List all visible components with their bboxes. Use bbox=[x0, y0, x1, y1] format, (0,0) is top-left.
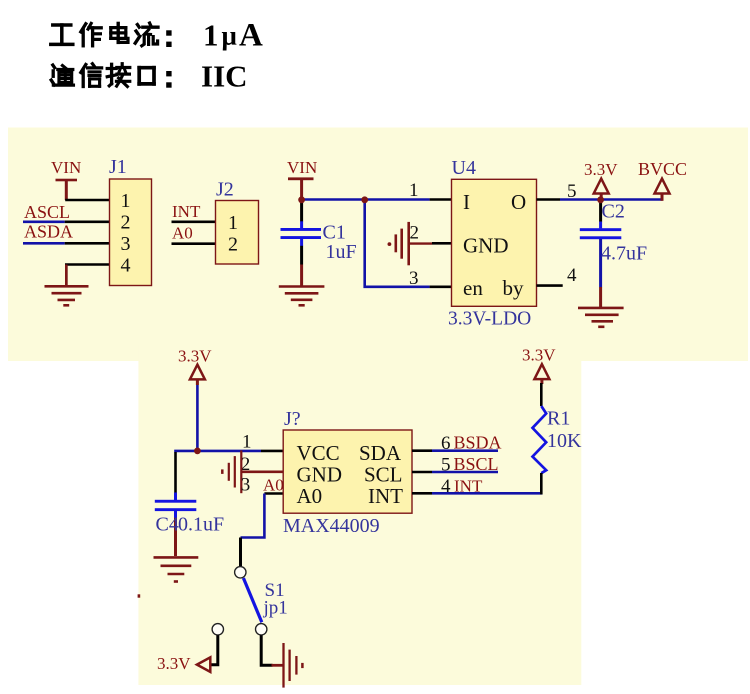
svg-text:MAX44009: MAX44009 bbox=[283, 515, 380, 537]
svg-text:C2: C2 bbox=[602, 201, 625, 223]
svg-text:3: 3 bbox=[241, 474, 251, 495]
wire J2 pin2 bbox=[172, 242, 216, 245]
wire U4 pin5 to 3.3V/BVCC bbox=[537, 198, 561, 201]
connector J2 bbox=[216, 179, 259, 265]
svg-text:GND: GND bbox=[297, 462, 343, 486]
svg-text:A0: A0 bbox=[172, 224, 193, 243]
wire J2 pin1 bbox=[172, 221, 216, 224]
svg-text:10K: 10K bbox=[547, 430, 582, 452]
power port 3.3V (R1) bbox=[522, 346, 556, 385]
svg-text:U4: U4 bbox=[452, 157, 476, 179]
wire J1 pin3 bbox=[65, 242, 110, 245]
svg-text:1uF: 1uF bbox=[326, 241, 357, 263]
capacitor C4 bbox=[155, 493, 224, 557]
svg-text:INT: INT bbox=[172, 202, 201, 221]
signal ground at MAX44009 pin2 bbox=[222, 450, 283, 493]
power port VIN (C1) bbox=[287, 158, 317, 200]
svg-text:A: A bbox=[239, 18, 263, 54]
wire J1 pin1 bbox=[65, 199, 109, 202]
wire J1 pin2 bbox=[65, 221, 110, 224]
svg-text:3.3V: 3.3V bbox=[522, 346, 556, 365]
svg-text:J2: J2 bbox=[216, 179, 234, 201]
svg-text:1: 1 bbox=[203, 18, 219, 53]
connector J1 bbox=[109, 156, 152, 286]
wire S1 other throw to 3.3V bbox=[210, 635, 218, 664]
junction node at U4 input net bbox=[361, 196, 368, 203]
svg-text:ASDA: ASDA bbox=[24, 222, 73, 242]
wire ASCL bbox=[23, 221, 65, 224]
svg-text:0.1uF: 0.1uF bbox=[178, 514, 224, 536]
signal ground at S1 bbox=[272, 643, 303, 688]
svg-text:1: 1 bbox=[242, 432, 252, 453]
svg-text:en: en bbox=[463, 276, 483, 300]
svg-text:VIN: VIN bbox=[51, 158, 81, 177]
heading line 1: 工作电流： 1uA bbox=[51, 25, 73, 44]
capacitor C2 bbox=[580, 200, 647, 308]
svg-text:3: 3 bbox=[121, 233, 131, 255]
sheet background top bbox=[8, 128, 748, 362]
regulator U4 bbox=[448, 157, 537, 330]
wire 3.3V to R1 bbox=[540, 383, 543, 406]
svg-text:R1: R1 bbox=[547, 408, 570, 430]
junction node VCC net bbox=[194, 448, 201, 455]
svg-text:J?: J? bbox=[284, 408, 301, 430]
wire node to C4 bbox=[174, 450, 197, 453]
wire J1 pin4 bbox=[66, 265, 109, 286]
svg-text:O: O bbox=[511, 190, 526, 214]
svg-text:1: 1 bbox=[228, 212, 238, 234]
power port 3.3V (C2) bbox=[584, 160, 618, 200]
svg-text:2: 2 bbox=[410, 223, 420, 244]
svg-text:ASCL: ASCL bbox=[24, 202, 70, 222]
wire R1 bottom bbox=[540, 473, 543, 494]
svg-text:jp1: jp1 bbox=[263, 598, 288, 619]
svg-text:μ: μ bbox=[222, 21, 237, 51]
svg-text:SCL: SCL bbox=[364, 462, 403, 486]
junction node at C1 bbox=[298, 196, 305, 203]
ground below C2 bbox=[578, 308, 624, 327]
svg-text:I: I bbox=[463, 190, 470, 214]
wire S1 common to ground bbox=[261, 635, 272, 665]
svg-text:J1: J1 bbox=[109, 156, 127, 178]
wire SCL bbox=[412, 471, 432, 474]
ground below C4 bbox=[154, 557, 199, 581]
svg-text:4.7uF: 4.7uF bbox=[601, 243, 647, 265]
signal ground at U4 pin2 bbox=[388, 222, 452, 265]
sensor U? MAX44009 bbox=[283, 408, 412, 537]
switch S1 bbox=[212, 567, 288, 635]
wire ASDA bbox=[23, 242, 65, 245]
wire node to U4 pin3 (en) bbox=[365, 200, 430, 287]
ground below J1 bbox=[45, 286, 89, 305]
svg-text:VIN: VIN bbox=[287, 158, 317, 177]
svg-text:1: 1 bbox=[409, 180, 419, 201]
svg-text:GND: GND bbox=[463, 234, 509, 258]
svg-text:4: 4 bbox=[567, 265, 577, 286]
wire INT to R1 bbox=[412, 492, 432, 495]
svg-text:3.3V-LDO: 3.3V-LDO bbox=[448, 309, 531, 330]
power port 3.3V (sensor supply) bbox=[178, 347, 212, 386]
sheet background bottom bbox=[138, 345, 581, 685]
power port BVCC bbox=[638, 159, 687, 201]
svg-text:C4: C4 bbox=[156, 514, 179, 536]
svg-text:A0: A0 bbox=[263, 475, 284, 494]
stray mark on sheet edge bbox=[138, 594, 141, 597]
power port VIN (J1) bbox=[51, 158, 81, 200]
wire MAX44009 A0 pin to switch bbox=[264, 492, 283, 495]
wire VIN node to U4 pin1 bbox=[302, 198, 430, 201]
power port 3.3V (left arrow) bbox=[157, 654, 210, 673]
heading line 2: 通信接口： IIC bbox=[51, 65, 73, 85]
svg-text:3: 3 bbox=[409, 268, 419, 289]
svg-text:2: 2 bbox=[228, 234, 238, 256]
capacitor C1 bbox=[281, 200, 357, 286]
svg-text:A0: A0 bbox=[297, 484, 323, 508]
wire U4 pin4 (n.c.) bbox=[537, 284, 563, 287]
svg-text:BVCC: BVCC bbox=[638, 159, 687, 179]
wire 3.3V down to node bbox=[196, 385, 199, 451]
svg-text:by: by bbox=[503, 276, 525, 300]
svg-text:4: 4 bbox=[121, 255, 131, 277]
ground below C1 bbox=[279, 287, 325, 306]
svg-text:INT: INT bbox=[368, 484, 403, 508]
svg-text:IIC: IIC bbox=[201, 59, 248, 94]
svg-text:3.3V: 3.3V bbox=[157, 654, 191, 673]
wire node to MAX44009 VCC pin1 bbox=[197, 450, 261, 453]
junction node at C2 bbox=[597, 196, 604, 203]
wire SDA bbox=[412, 449, 432, 452]
resistor R1 bbox=[533, 406, 583, 473]
svg-text:1: 1 bbox=[121, 190, 131, 212]
svg-text:3.3V: 3.3V bbox=[178, 347, 212, 366]
svg-text:2: 2 bbox=[121, 212, 131, 234]
